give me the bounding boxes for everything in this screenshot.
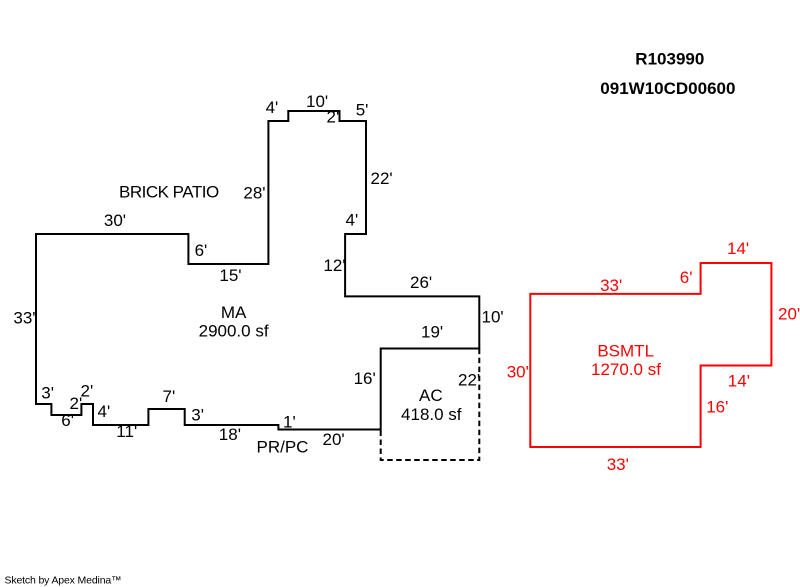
svg-text:1270.0 sf: 1270.0 sf <box>591 360 661 379</box>
svg-text:11': 11' <box>116 422 137 441</box>
svg-text:2': 2' <box>81 382 94 401</box>
svg-text:PR/PC: PR/PC <box>257 438 309 457</box>
svg-text:6': 6' <box>195 241 208 260</box>
svg-text:6': 6' <box>61 411 74 430</box>
svg-text:33': 33' <box>607 455 629 474</box>
svg-text:15': 15' <box>219 266 241 285</box>
svg-text:26': 26' <box>410 273 432 292</box>
svg-text:5': 5' <box>356 100 369 119</box>
svg-text:6': 6' <box>680 268 693 287</box>
svg-text:18': 18' <box>219 425 241 444</box>
svg-text:BSMTL: BSMTL <box>597 341 654 360</box>
svg-text:33': 33' <box>13 309 35 328</box>
svg-text:30': 30' <box>104 211 126 230</box>
svg-text:12': 12' <box>323 256 345 275</box>
svg-text:BRICK PATIO: BRICK PATIO <box>119 183 219 202</box>
svg-text:MA: MA <box>221 303 247 322</box>
svg-text:16': 16' <box>354 369 376 388</box>
main area outline MA <box>36 111 479 430</box>
basement outline BSMTL <box>530 263 771 447</box>
svg-text:418.0 sf: 418.0 sf <box>401 405 462 424</box>
svg-text:10': 10' <box>306 92 328 111</box>
svg-text:AC: AC <box>419 386 443 405</box>
svg-text:1': 1' <box>283 413 296 432</box>
svg-text:22': 22' <box>371 169 393 188</box>
svg-text:Sketch by Apex Medina™: Sketch by Apex Medina™ <box>5 574 122 586</box>
svg-text:2900.0 sf: 2900.0 sf <box>199 322 269 341</box>
AC porch dashed outline <box>381 349 480 461</box>
svg-text:3': 3' <box>191 406 204 425</box>
svg-text:7': 7' <box>163 387 176 406</box>
svg-text:10': 10' <box>482 308 504 327</box>
svg-text:3': 3' <box>41 384 54 403</box>
svg-text:19': 19' <box>421 323 443 342</box>
svg-text:4': 4' <box>346 211 359 230</box>
svg-text:20': 20' <box>778 305 800 324</box>
svg-text:4': 4' <box>98 402 111 421</box>
svg-text:091W10CD00600: 091W10CD00600 <box>600 79 735 98</box>
svg-text:R103990: R103990 <box>635 50 704 69</box>
svg-text:14': 14' <box>727 239 749 258</box>
svg-text:33': 33' <box>600 276 622 295</box>
svg-text:14': 14' <box>728 372 750 391</box>
svg-text:2': 2' <box>327 108 340 127</box>
svg-text:4': 4' <box>266 98 279 117</box>
svg-text:30': 30' <box>507 362 529 381</box>
svg-text:28': 28' <box>243 184 265 203</box>
svg-text:20': 20' <box>323 430 345 449</box>
svg-text:22': 22' <box>458 371 480 390</box>
svg-text:16': 16' <box>706 398 728 417</box>
